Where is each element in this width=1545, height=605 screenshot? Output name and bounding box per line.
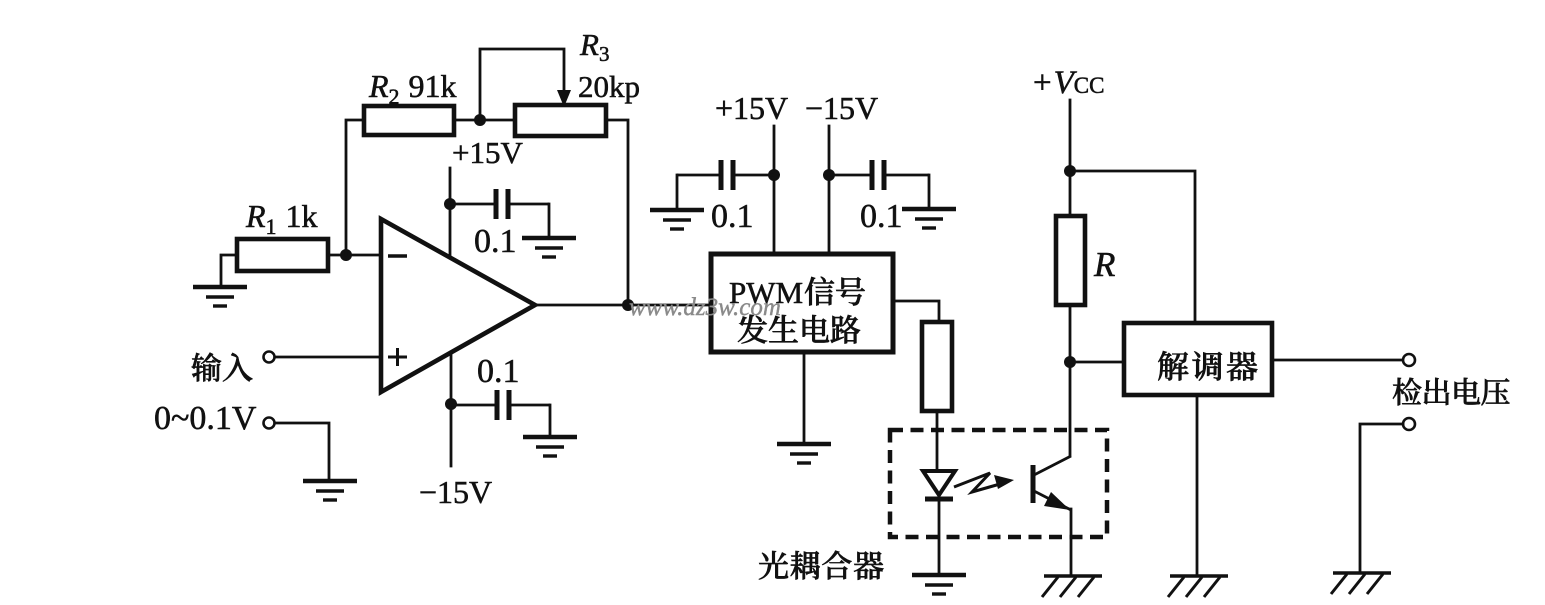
wire PWM ground pin: [803, 352, 806, 442]
svg-text:+15V: +15V: [452, 135, 523, 170]
svg-text:R: R: [1093, 245, 1115, 284]
wiper arrowhead onto R3: [557, 90, 571, 107]
wire C4 to ground: [928, 175, 931, 207]
wire potentiometer wiper loop: [480, 49, 564, 120]
optocoupler dashed box: [890, 430, 1107, 537]
resistor R1: [237, 239, 328, 271]
wire emitter to ground: [1070, 509, 1073, 574]
node -15V: [823, 169, 835, 181]
node +15V: [768, 169, 780, 181]
node: inverting input junction: [340, 249, 352, 261]
svg-text:R291k: R291k: [368, 68, 457, 109]
wire feedback vertical: [346, 120, 364, 255]
resistor R4 (series, vertical): [922, 322, 952, 411]
wire op-amp V- pin: [450, 352, 453, 466]
svg-text:0.1: 0.1: [474, 223, 517, 260]
node R/collector junction: [1064, 356, 1076, 368]
ground GND4: [523, 437, 577, 456]
op-amp minus sign: [388, 254, 407, 257]
label 解调器: [1158, 351, 1257, 381]
potentiometer R3: [515, 105, 606, 136]
wire R3 right side down to output node: [606, 120, 628, 305]
node op-amp V+: [444, 198, 456, 210]
svg-text:20kp: 20kp: [578, 69, 640, 104]
wire op-amp output to PWM block: [535, 304, 711, 307]
node Vcc junction: [1064, 165, 1076, 177]
wire R to collector: [1069, 305, 1072, 456]
op-amp plus sign: [388, 348, 407, 366]
op-amp U1 triangle: [381, 219, 535, 392]
resistor R: [1056, 216, 1085, 305]
block U2: PWM signal generator box: [711, 254, 893, 352]
wire Vcc to demod top: [1070, 171, 1195, 323]
svg-text:0.1: 0.1: [860, 198, 903, 235]
svg-text:www.dz3w.com: www.dz3w.com: [629, 294, 781, 321]
ground GND2: [303, 481, 357, 500]
node output junction: [622, 299, 634, 311]
capacitor C4 0.1: [829, 174, 870, 177]
svg-text:−15V: −15V: [805, 90, 878, 126]
wire demod output: [1272, 359, 1403, 362]
label 检出电压: [1393, 378, 1510, 406]
wire -15V pin: [828, 126, 831, 254]
wire R2 to R3: [454, 119, 515, 122]
node R2/R3 junction: [474, 114, 486, 126]
wire R4 to LED: [936, 411, 939, 470]
terminal output lower: [1403, 418, 1415, 430]
terminal 0-0.1V: [264, 418, 275, 429]
terminal input +: [275, 356, 381, 359]
capacitor C2 0.1: [451, 404, 495, 407]
svg-text:0.1: 0.1: [711, 198, 754, 235]
wire C2 to ground: [549, 405, 552, 435]
svg-text:0.1: 0.1: [477, 353, 520, 390]
ground GND10 (hatched): [1331, 573, 1391, 594]
wire PWM output to series resistor: [893, 301, 939, 322]
wire +15V pin: [773, 126, 776, 254]
svg-text:+15V: +15V: [715, 90, 788, 126]
ground GND1 (left of R1): [221, 255, 237, 286]
ground GND7: [777, 444, 831, 463]
wire R1 to inverting input: [328, 254, 381, 257]
capacitor C3 0.1: [677, 174, 719, 177]
wire Vcc down: [1069, 100, 1072, 216]
wire demod bottom pin: [1196, 395, 1199, 574]
capacitor C1 0.1: [450, 203, 494, 206]
label 发生电路: [738, 315, 860, 344]
terminal output upper: [1403, 354, 1415, 366]
ground GND8: [912, 575, 966, 594]
svg-text:0~0.1V: 0~0.1V: [154, 400, 257, 437]
wire lower terminal to ground: [1360, 424, 1403, 571]
resistor R2: [364, 106, 454, 135]
node op-amp V-: [445, 398, 457, 410]
ground GND6: [902, 209, 956, 228]
wire lower terminal to ground: [275, 423, 329, 479]
wire +15V to op-amp: [449, 168, 452, 256]
ground GND5: [650, 210, 704, 229]
LED D1: [923, 471, 955, 495]
wire C1 to ground: [548, 204, 551, 236]
block U3: demodulator box: [1124, 323, 1272, 395]
ground GND3: [522, 238, 576, 257]
label 输入: [192, 353, 253, 382]
wire junction to demod: [1070, 361, 1124, 364]
ground GND11 (hatched): [1168, 576, 1228, 597]
light arrow: [954, 473, 1000, 492]
phototransistor Q1: [1031, 465, 1036, 503]
wire C3 to ground: [676, 175, 679, 208]
svg-text:−15V: −15V: [419, 474, 492, 510]
wire LED cathode to ground: [938, 501, 941, 573]
ground GND9 (hatched): [1042, 576, 1102, 597]
label 光耦合器: [759, 551, 884, 580]
